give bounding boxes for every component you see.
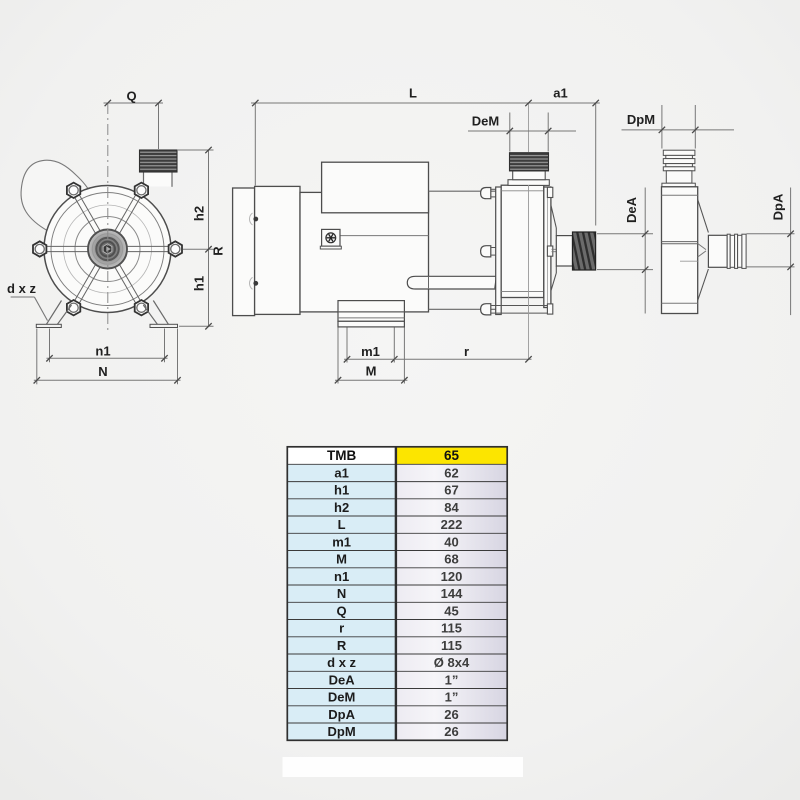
svg-text:1”: 1” xyxy=(445,690,459,705)
svg-text:84: 84 xyxy=(444,500,459,515)
svg-text:115: 115 xyxy=(441,638,462,653)
svg-text:d x z: d x z xyxy=(7,281,36,296)
svg-text:222: 222 xyxy=(441,517,463,532)
svg-text:d x z: d x z xyxy=(327,655,356,670)
svg-text:DpM: DpM xyxy=(328,724,356,739)
svg-text:68: 68 xyxy=(444,552,458,567)
svg-text:L: L xyxy=(409,86,417,101)
svg-text:r: r xyxy=(464,344,469,359)
svg-text:m1: m1 xyxy=(332,534,351,549)
svg-text:h1: h1 xyxy=(192,276,207,291)
svg-text:Q: Q xyxy=(126,89,136,104)
svg-text:L: L xyxy=(338,517,346,532)
svg-text:N: N xyxy=(98,364,107,379)
svg-text:a1: a1 xyxy=(553,86,567,101)
svg-text:h1: h1 xyxy=(334,483,349,498)
svg-text:DpM: DpM xyxy=(627,112,655,127)
svg-text:r: r xyxy=(339,621,344,636)
svg-text:R: R xyxy=(337,638,347,653)
svg-text:M: M xyxy=(366,364,377,379)
svg-text:144: 144 xyxy=(441,586,463,601)
svg-text:R: R xyxy=(211,246,226,256)
svg-text:1”: 1” xyxy=(445,672,459,687)
svg-text:45: 45 xyxy=(444,603,458,618)
svg-text:115: 115 xyxy=(441,621,462,636)
svg-text:h2: h2 xyxy=(192,206,207,221)
svg-text:65: 65 xyxy=(444,448,460,463)
svg-text:120: 120 xyxy=(441,569,463,584)
svg-text:26: 26 xyxy=(444,707,458,722)
svg-text:DpA: DpA xyxy=(328,707,355,722)
svg-text:DeM: DeM xyxy=(328,690,355,705)
svg-text:TMB: TMB xyxy=(327,448,356,463)
svg-text:DeA: DeA xyxy=(329,672,356,687)
svg-text:m1: m1 xyxy=(361,344,380,359)
svg-text:M: M xyxy=(336,552,347,567)
svg-text:h2: h2 xyxy=(334,500,349,515)
svg-text:DeA: DeA xyxy=(624,196,639,223)
svg-text:Q: Q xyxy=(337,603,347,618)
svg-text:Ø 8x4: Ø 8x4 xyxy=(434,655,470,670)
svg-text:N: N xyxy=(337,586,346,601)
svg-text:26: 26 xyxy=(444,724,458,739)
svg-text:40: 40 xyxy=(444,534,458,549)
svg-text:DeM: DeM xyxy=(472,114,499,129)
svg-text:n1: n1 xyxy=(334,569,349,584)
svg-text:DpA: DpA xyxy=(771,193,786,220)
svg-text:67: 67 xyxy=(444,483,458,498)
svg-text:62: 62 xyxy=(444,465,458,480)
svg-text:n1: n1 xyxy=(95,344,110,359)
svg-text:a1: a1 xyxy=(334,465,348,480)
